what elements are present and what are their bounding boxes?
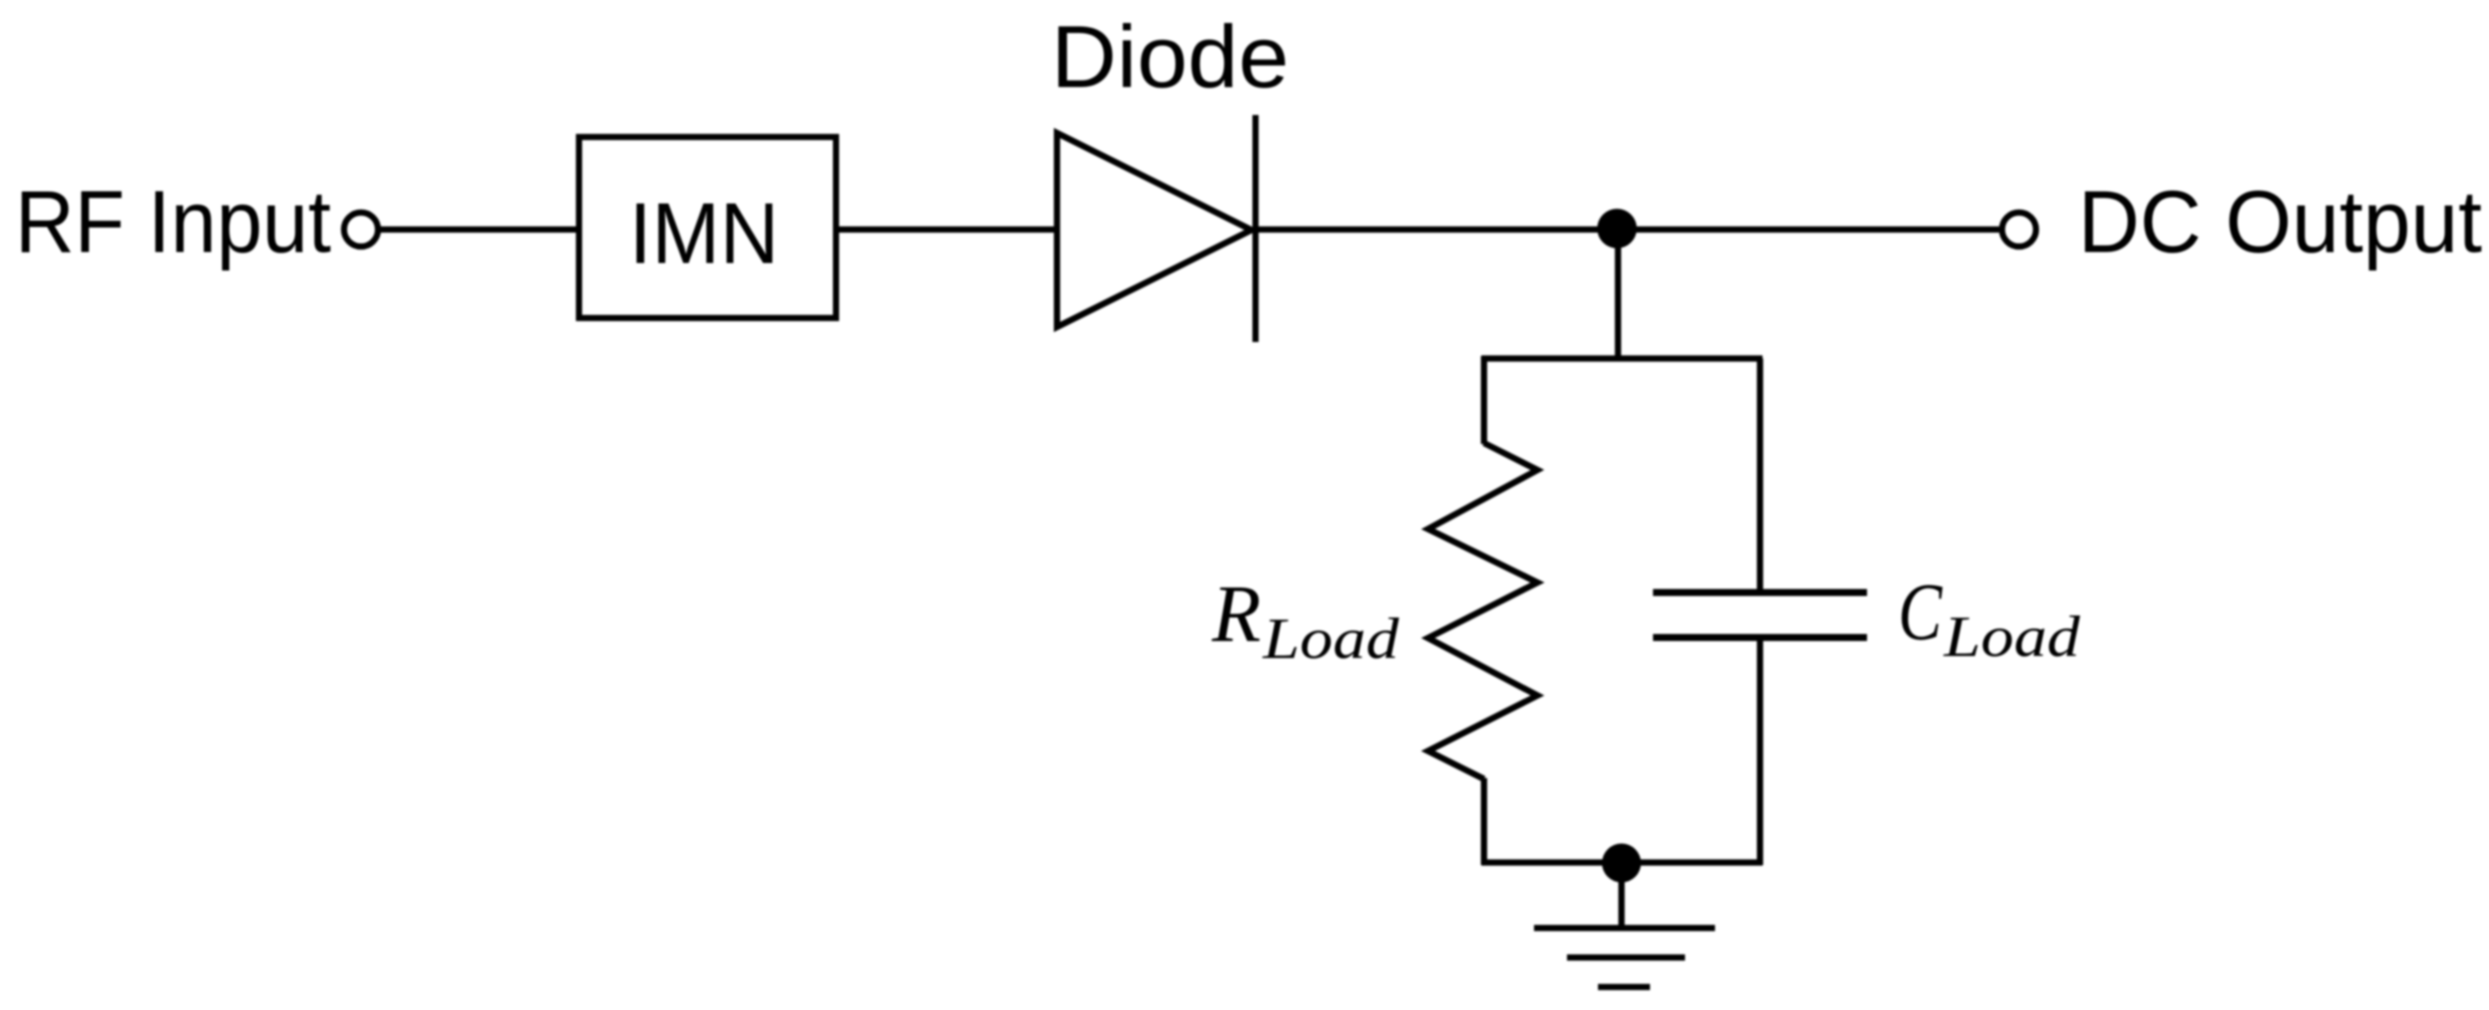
diode D1 triangle — [1057, 133, 1252, 327]
wire top bar of load network — [1482, 355, 1763, 361]
diode D1 cathode bar — [1252, 115, 1258, 342]
ground symbol line 3 — [1598, 984, 1650, 990]
node ground junction (solid dot) — [1602, 844, 1641, 883]
wire ground stub — [1618, 863, 1624, 928]
wire capacitor bottom lead — [1757, 638, 1763, 866]
svg-text:Load: Load — [1943, 604, 2081, 669]
block IMN (box) — [579, 137, 836, 318]
node output junction (solid dot) — [1597, 209, 1637, 249]
svg-text:RF Input: RF Input — [15, 172, 331, 271]
wire IMN box to diode anode — [836, 226, 1057, 232]
wire bottom bar of load network — [1482, 859, 1763, 865]
svg-text:C: C — [1898, 566, 1943, 657]
wire diode cathode to output node — [1256, 226, 2000, 232]
wire left riser to resistor — [1481, 356, 1487, 444]
svg-text:DC Output: DC Output — [2078, 172, 2482, 271]
svg-text:Load: Load — [1262, 606, 1400, 671]
wire resistor bottom stub — [1481, 778, 1487, 865]
wire junction down to load network — [1615, 229, 1621, 361]
terminal DC output (open circle) — [2002, 213, 2036, 247]
ground symbol line 2 — [1567, 954, 1685, 960]
capacitor CLoad top plate — [1653, 589, 1867, 596]
svg-text:IMN: IMN — [629, 186, 779, 282]
wire capacitor top lead — [1757, 359, 1763, 593]
svg-text:R: R — [1211, 568, 1261, 659]
resistor RLoad zigzag — [1428, 443, 1538, 779]
ground symbol line 1 — [1534, 925, 1715, 931]
capacitor CLoad bottom plate — [1653, 634, 1867, 641]
svg-text:Diode: Diode — [1051, 7, 1289, 106]
terminal RF input (open circle) — [344, 213, 378, 247]
wire RF terminal to IMN box — [381, 226, 580, 232]
